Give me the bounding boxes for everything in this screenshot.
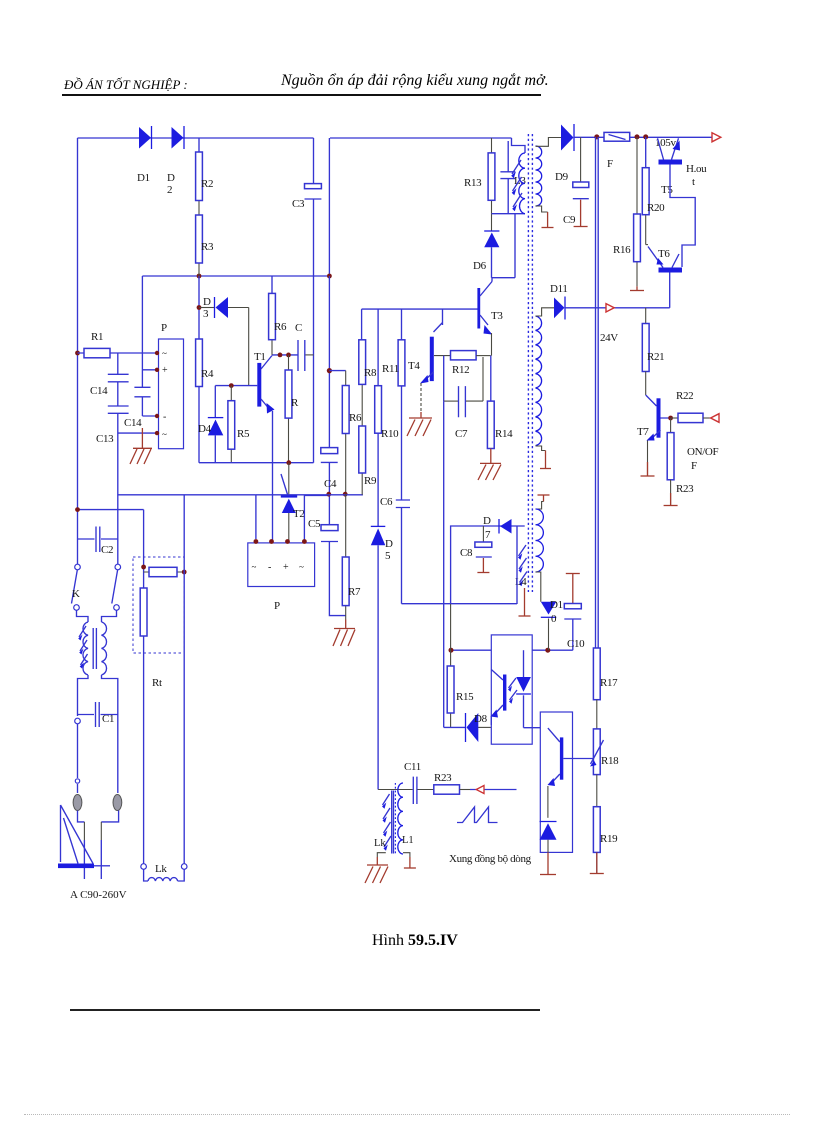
inductor Lk <box>144 869 185 881</box>
node D3 tap <box>197 305 202 310</box>
resistor R21 <box>642 324 649 372</box>
label 24V <box>600 332 618 344</box>
label D7 <box>483 515 491 541</box>
wire R2R3 column <box>198 138 200 276</box>
opto LED arrows by core <box>518 545 527 586</box>
svg-text:Lk: Lk <box>155 863 167 875</box>
diode D9 <box>561 124 574 151</box>
svg-text:~: ~ <box>162 430 167 440</box>
diode D11 <box>554 297 565 320</box>
diode D4 branch <box>214 386 216 463</box>
svg-text:R22: R22 <box>676 390 693 402</box>
node R22 <box>668 416 673 421</box>
svg-text:~: ~ <box>162 349 167 359</box>
capacitor C13 <box>108 406 129 413</box>
svg-text:R8: R8 <box>364 367 377 379</box>
label R10 <box>381 428 399 440</box>
label D1 <box>137 172 150 184</box>
wire T3 emitter column <box>490 356 492 402</box>
svg-text:T2: T2 <box>293 508 305 520</box>
P1 pin symbols <box>162 349 168 440</box>
svg-text:D: D <box>167 172 175 184</box>
resistor R18 <box>593 729 600 775</box>
label R19 <box>600 833 618 845</box>
node 355 a <box>278 353 291 358</box>
ground T4 (red hatched) <box>407 412 432 436</box>
svg-text:Lk: Lk <box>374 838 386 849</box>
capacitor C6 <box>396 500 410 508</box>
svg-text:ON/OF: ON/OF <box>687 446 718 458</box>
resistor R13 <box>488 153 495 200</box>
svg-text:T3: T3 <box>491 310 503 322</box>
header underline <box>62 94 541 96</box>
svg-text:5: 5 <box>385 550 391 562</box>
wire C14 C13 column <box>117 353 119 564</box>
label R18 <box>601 755 619 767</box>
resistor R2 <box>196 152 203 201</box>
svg-text:D: D <box>385 538 393 550</box>
svg-text:R19: R19 <box>600 833 618 845</box>
diode D7 <box>499 519 512 534</box>
transistor T5 <box>658 138 683 164</box>
svg-text:R20: R20 <box>647 202 665 214</box>
ground L1 right (red) <box>404 857 416 868</box>
svg-text:3: 3 <box>203 308 209 320</box>
ground T8 (red) <box>540 852 556 874</box>
label R5 <box>237 428 250 440</box>
label P2 <box>274 600 280 612</box>
svg-text:H.ou: H.ou <box>686 163 707 175</box>
wire T3 collector loop <box>492 214 516 282</box>
transistor T7 <box>647 398 671 475</box>
wire S3 bottom to D10 <box>536 572 541 602</box>
footer rule <box>70 1009 540 1011</box>
svg-text:R6: R6 <box>274 321 287 333</box>
wire top rail A <box>78 137 314 139</box>
wire C4 C5 column <box>329 276 345 616</box>
label D11 <box>550 283 568 295</box>
svg-text:7: 7 <box>485 529 491 541</box>
label D10 <box>550 599 563 625</box>
diode D5 <box>371 526 386 789</box>
resistor R17 <box>593 648 600 700</box>
diode D8 <box>466 713 479 742</box>
resistor Rt horizontal <box>144 567 185 576</box>
svg-text:D1: D1 <box>550 599 563 611</box>
label T1 <box>254 351 266 363</box>
resistor R15 <box>447 666 454 713</box>
resistor R3 <box>196 215 203 263</box>
wire L1 left bottom <box>377 853 386 857</box>
label C10 <box>567 638 585 650</box>
ground R14 (red hatched) <box>478 449 501 481</box>
svg-text:-: - <box>163 412 166 423</box>
resistor R19 <box>593 807 600 853</box>
wire plug leads <box>78 715 118 794</box>
wire bus 309 <box>362 308 478 310</box>
svg-text:P: P <box>161 322 167 334</box>
svg-text:C14: C14 <box>90 385 108 397</box>
wire top rail B <box>330 138 523 146</box>
label R1 <box>91 331 103 343</box>
output arrow 24V (red) <box>606 304 614 312</box>
resistor R9 <box>359 426 366 473</box>
svg-text:T1: T1 <box>254 351 266 363</box>
svg-text:C1: C1 <box>102 713 114 725</box>
svg-text:C14: C14 <box>124 417 142 429</box>
diode D2 <box>172 126 185 149</box>
wire R10 column <box>377 309 379 526</box>
label Hout <box>686 163 707 188</box>
svg-text:R10: R10 <box>381 428 399 440</box>
label C14b <box>124 417 142 429</box>
svg-text:R11: R11 <box>382 363 399 375</box>
svg-text:D8: D8 <box>474 713 488 725</box>
svg-text:R6: R6 <box>349 412 362 424</box>
wire R4 column <box>198 276 200 463</box>
capacitor C14b <box>134 387 150 397</box>
wire 213 horizontal <box>492 213 526 215</box>
label R4 <box>201 368 214 380</box>
label R3 <box>201 241 214 253</box>
label L1 <box>402 835 414 846</box>
diode D3 <box>199 297 249 386</box>
svg-text:~: ~ <box>299 562 304 572</box>
ground R23r (red) <box>664 493 678 506</box>
resistor R16 <box>634 214 641 262</box>
wire T5 collector loop <box>670 165 695 268</box>
transformer L1 winding <box>398 783 403 854</box>
resistor R5 <box>228 386 235 463</box>
svg-text:K: K <box>72 588 80 600</box>
wire below pins <box>78 811 119 880</box>
sync input arrow (red) <box>470 786 517 794</box>
wire R11 column <box>401 309 403 604</box>
svg-text:R12: R12 <box>452 364 469 376</box>
label D8 <box>474 713 488 725</box>
node 510 <box>75 507 80 512</box>
label R20 <box>647 202 665 214</box>
transistor T3 <box>477 282 492 356</box>
wire node 355 <box>272 354 298 356</box>
wire S2 bottom jog <box>536 446 546 451</box>
plug symbol <box>58 805 110 868</box>
wire long rail x596 <box>596 137 599 648</box>
svg-text:R2: R2 <box>201 178 213 190</box>
label R17 <box>600 677 618 689</box>
wire R21 to T7 <box>646 372 657 407</box>
label Rt <box>152 677 162 689</box>
ground S1 (red) <box>542 212 554 228</box>
wire D8 row <box>444 726 492 728</box>
box T8 <box>540 712 572 852</box>
P2 pin symbols <box>252 562 305 573</box>
label C4 <box>324 478 337 490</box>
svg-text:2: 2 <box>167 184 172 196</box>
diode D10 <box>541 602 557 651</box>
wire C7 right riser <box>466 357 483 401</box>
wire 604 <box>402 603 518 605</box>
svg-text:R14: R14 <box>495 428 513 440</box>
capacitor C8 <box>475 526 492 557</box>
capacitor C primary snubber <box>500 141 515 214</box>
fuse F <box>604 132 662 141</box>
wire R13 column <box>491 138 493 214</box>
opto LED <box>516 650 531 728</box>
svg-text:R5: R5 <box>237 428 250 440</box>
svg-text:0: 0 <box>551 613 557 625</box>
wire Rt left column <box>143 636 145 864</box>
svg-text:T4: T4 <box>408 360 420 372</box>
wire rail B drop to bus <box>328 138 330 276</box>
wire 494 extension to R9 <box>256 494 363 496</box>
label P1 <box>161 322 167 334</box>
choke windings <box>77 611 118 717</box>
wire R21 drop <box>645 308 647 324</box>
label R12 <box>452 364 469 376</box>
bridge rectifier P2 <box>248 543 315 587</box>
svg-text:C4: C4 <box>324 478 337 490</box>
svg-text:D: D <box>203 296 211 308</box>
svg-text:C10: C10 <box>567 638 585 650</box>
header left text <box>64 77 188 93</box>
ground L4 (red) <box>519 588 531 616</box>
label R2 <box>201 178 213 190</box>
node 650 left <box>449 648 551 653</box>
svg-text:L1: L1 <box>402 835 414 846</box>
inductor Lk circles <box>141 864 187 870</box>
wire R16 column <box>636 137 638 286</box>
wire S2 top to D11 <box>536 308 555 316</box>
label C6 <box>380 496 393 508</box>
potentiometer arrow R18 <box>590 740 604 767</box>
wire R17 R18 <box>596 700 598 729</box>
svg-text:C13: C13 <box>96 433 114 445</box>
wire C3 branch vertical <box>313 138 315 463</box>
wire x184 column <box>183 495 185 864</box>
label D9 <box>555 171 569 183</box>
opto phototransistor <box>491 670 507 726</box>
wire R6a column <box>271 276 273 355</box>
wire R20 column <box>645 137 647 245</box>
ground T7 (red) <box>641 462 655 476</box>
capacitor C3 <box>305 184 322 199</box>
label D6 <box>473 260 487 272</box>
node 370 <box>327 368 332 373</box>
plug pins <box>73 795 122 811</box>
label L4 <box>515 577 527 588</box>
label C <box>295 322 302 334</box>
svg-text:A C90-260V: A C90-260V <box>70 889 127 901</box>
label K <box>72 588 80 600</box>
svg-text:-: - <box>268 562 271 573</box>
transistor T6 <box>646 245 682 273</box>
wire R18 R19 <box>596 775 598 807</box>
svg-text:R21: R21 <box>647 351 664 363</box>
resistor R6a <box>269 293 276 339</box>
transistor T1 <box>257 356 274 414</box>
wire opto to T8 <box>524 727 548 729</box>
capacitor C2 <box>78 527 118 553</box>
label R23s <box>434 772 452 784</box>
svg-text:C5: C5 <box>308 518 321 530</box>
wire T4 to R12 <box>434 355 451 357</box>
label Lk2 <box>374 838 386 849</box>
svg-text:D11: D11 <box>550 283 568 295</box>
label R21 <box>647 351 664 363</box>
svg-text:T6: T6 <box>658 248 670 260</box>
node P1 pins <box>155 351 159 436</box>
svg-text:T7: T7 <box>637 426 649 438</box>
label D5 <box>385 538 393 562</box>
label F <box>607 158 613 170</box>
label C11 <box>404 761 421 773</box>
terminal circle left <box>75 718 81 783</box>
ground C10 top (red) <box>566 574 580 604</box>
label D2 <box>167 172 175 196</box>
resistor R1 <box>78 348 159 357</box>
svg-text:C2: C2 <box>101 544 113 556</box>
svg-text:C6: C6 <box>380 496 393 508</box>
label C13 <box>96 433 114 445</box>
svg-text:Xung đồng bộ dòng: Xung đồng bộ dòng <box>449 853 532 865</box>
resistor R4 <box>196 339 203 387</box>
label L3 <box>514 175 526 187</box>
svg-text:R16: R16 <box>613 244 631 256</box>
capacitor C9 <box>573 137 589 198</box>
svg-text:R23: R23 <box>434 772 452 784</box>
sawtooth waveform <box>457 807 498 823</box>
wire P1 pin3 <box>142 415 158 417</box>
resistor R11 <box>398 340 405 386</box>
input arrow ONOFF (red) <box>711 414 719 423</box>
label C2 <box>101 544 113 556</box>
wire C14b column <box>141 276 143 416</box>
resistor Rt vertical <box>140 588 147 636</box>
svg-text:R17: R17 <box>600 677 618 689</box>
label T4 <box>408 360 420 372</box>
box Rt dashed <box>133 557 184 653</box>
wire S3 top jog <box>536 502 544 510</box>
node bus/railB <box>197 274 332 279</box>
svg-text:C11: C11 <box>404 761 421 773</box>
node Rt <box>141 565 186 575</box>
svg-text:R15: R15 <box>456 691 474 703</box>
wire R8 R9 column <box>361 309 364 495</box>
wire C7 left riser <box>444 356 458 402</box>
box optocoupler <box>491 635 532 744</box>
wire S1 top to D9 <box>536 138 562 147</box>
switch K blades <box>72 570 118 604</box>
resistor R <box>285 355 292 463</box>
svg-text:24V: 24V <box>600 332 618 344</box>
choke core <box>93 628 96 669</box>
wire left vertical rail <box>77 138 79 564</box>
svg-text:F: F <box>691 460 697 472</box>
label T7 <box>637 426 649 438</box>
node fuse out <box>594 134 648 139</box>
thyristor D12 <box>540 822 557 853</box>
resistor R10 <box>375 386 382 434</box>
wire R12 right <box>476 355 491 357</box>
output arrow Hout (red) <box>712 133 721 142</box>
L1 arrows <box>382 794 391 851</box>
header title <box>281 72 549 90</box>
bridge rectifier P1 <box>159 339 184 449</box>
wire P1 pin2 <box>142 369 158 371</box>
thyristor T2 gate <box>281 463 289 496</box>
svg-text:D6: D6 <box>473 260 487 272</box>
wire T6 emitter down <box>669 273 671 308</box>
svg-text:t: t <box>692 176 695 188</box>
resistor R23s <box>434 785 470 794</box>
wire 510 horizontal <box>78 510 144 588</box>
svg-text:R9: R9 <box>364 475 377 487</box>
wire D9 to F <box>574 136 604 138</box>
label C5 <box>308 518 321 530</box>
label R23r <box>676 483 694 495</box>
label sync text <box>449 853 532 865</box>
label T5 <box>661 184 673 196</box>
svg-text:+: + <box>162 365 168 376</box>
svg-text:D: D <box>483 515 491 527</box>
node 462 <box>286 460 291 465</box>
svg-text:F: F <box>607 158 613 170</box>
capacitor C7 <box>459 386 466 417</box>
svg-text:+: + <box>283 562 289 573</box>
label R7 <box>348 586 361 598</box>
label C9 <box>563 214 576 226</box>
wire L1 right bottom <box>403 853 410 857</box>
capacitor C4 <box>321 448 338 463</box>
label Lk <box>155 863 167 875</box>
nodes on wire494 <box>326 492 347 497</box>
resistor R23r <box>667 418 674 505</box>
svg-text:R: R <box>291 397 299 409</box>
svg-text:C: C <box>295 322 302 334</box>
svg-text:T5: T5 <box>661 184 673 196</box>
svg-text:R18: R18 <box>601 755 619 767</box>
node R1 left <box>75 351 80 356</box>
secondary winding S3 <box>536 509 544 572</box>
wire 494 horizontal <box>118 495 256 539</box>
label C8 <box>460 547 473 559</box>
wire line 462 <box>199 462 314 464</box>
label C7 <box>455 428 468 440</box>
wire T1 base <box>215 385 257 387</box>
wire 24V rail <box>565 307 670 309</box>
diode D6 <box>484 214 499 248</box>
wire top out rail <box>662 136 712 138</box>
svg-text:R7: R7 <box>348 586 361 598</box>
label R6a <box>274 321 287 333</box>
transformer core <box>528 134 532 592</box>
label C1 <box>102 713 114 725</box>
diode D4 <box>208 418 224 436</box>
svg-text:Rt: Rt <box>152 677 162 689</box>
nodes P2 pins <box>254 539 307 544</box>
switch K circles <box>74 564 121 610</box>
resistor R6b <box>342 386 349 434</box>
svg-text:C7: C7 <box>455 428 468 440</box>
ground R7 (red hatched) <box>333 620 355 647</box>
choke arrows <box>78 626 87 669</box>
secondary winding S1 <box>536 146 542 206</box>
label T2 <box>293 508 305 520</box>
caption <box>372 932 458 950</box>
svg-text:C8: C8 <box>460 547 473 559</box>
label R22 <box>676 390 693 402</box>
